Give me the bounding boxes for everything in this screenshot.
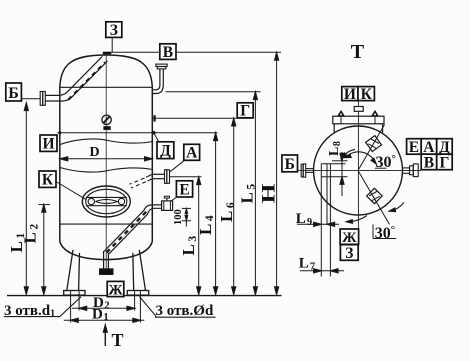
svg-text:L3: L3 [179,236,199,256]
svg-text:L6: L6 [217,202,237,222]
svg-text:Д: Д [160,143,171,160]
svg-text:3 отв.d1: 3 отв.d1 [4,303,55,320]
svg-text:Г: Г [439,154,449,171]
svg-text:Ж: Ж [108,282,123,298]
svg-text:L7: L7 [299,256,315,273]
svg-text:100: 100 [173,209,184,225]
svg-text:Д: Д [439,139,450,156]
svg-text:З: З [345,245,353,262]
svg-text:Ж: Ж [342,230,357,246]
svg-text:А: А [423,139,435,156]
svg-text:К: К [361,86,373,103]
svg-text:30°: 30° [375,224,395,242]
svg-text:L9: L9 [296,211,312,228]
svg-text:H: H [258,183,279,203]
svg-text:30°: 30° [376,153,396,171]
svg-text:Е: Е [179,181,189,198]
svg-text:И: И [42,136,54,153]
svg-text:3 отв.Ød: 3 отв.Ød [156,303,214,319]
svg-text:L8: L8 [327,141,343,156]
svg-text:А: А [186,145,198,162]
svg-text:Б: Б [285,156,295,173]
svg-text:L2: L2 [21,224,41,244]
svg-text:Т: Т [112,330,124,350]
svg-text:Т: Т [351,41,365,63]
svg-text:В: В [163,44,173,61]
svg-text:И: И [344,86,356,103]
svg-text:Г: Г [240,103,250,120]
svg-text:З: З [110,22,118,39]
svg-text:L5: L5 [238,184,258,204]
svg-text:Б: Б [8,85,19,102]
svg-text:В: В [424,154,434,171]
svg-text:К: К [42,172,54,189]
svg-text:D: D [90,145,100,160]
svg-text:Е: Е [409,139,419,156]
